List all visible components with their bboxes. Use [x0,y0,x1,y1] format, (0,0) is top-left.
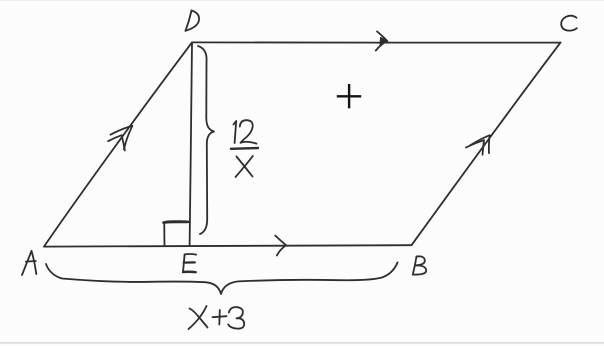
arrow on DC (single chevron) [376,32,388,51]
label D [186,11,192,31]
label A [22,251,32,275]
right-angle mark at E [163,222,165,246]
brace under AB [46,263,398,295]
label B [413,257,417,275]
wire side DC [192,41,561,44]
wire altitude DE [190,43,192,246]
faint top edge line [0,0,604,1]
label E [183,255,185,273]
label x+3 under brace [190,309,208,328]
label C [561,16,577,31]
brace for DE (right of altitude) [198,46,214,234]
crosshair plus mark [337,84,361,108]
wire side CB [412,43,561,246]
wire side AB [44,245,411,246]
label fraction 12 over x [234,121,237,143]
wire side AD [44,42,192,246]
arrow on AB (single chevron) [275,236,286,256]
faint bottom scan line [0,342,604,344]
arrow on AD (double chevron) [111,126,133,149]
arrow on CB (double chevron) [470,135,490,153]
